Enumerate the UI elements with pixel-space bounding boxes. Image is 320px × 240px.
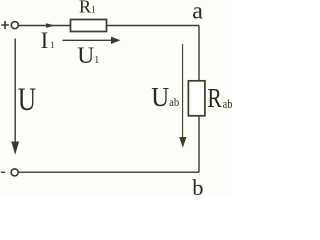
wire bbox=[198, 26, 200, 81]
plus terminal sign bbox=[1, 21, 9, 29]
current arrowhead I1 bbox=[46, 23, 55, 28]
resistor R1 bbox=[71, 20, 107, 32]
svg-text:b: b bbox=[192, 175, 203, 195]
svg-text:U: U bbox=[18, 82, 36, 118]
wire bbox=[19, 171, 199, 173]
resistor Rab bbox=[188, 81, 205, 116]
wire bbox=[198, 117, 200, 173]
arrowhead U bbox=[11, 142, 19, 155]
wire bbox=[19, 25, 70, 27]
positive terminal bbox=[11, 22, 18, 29]
wire bbox=[107, 25, 199, 27]
arrowhead U1 bbox=[111, 37, 121, 44]
arrow U1 bbox=[63, 39, 113, 41]
arrow U bbox=[14, 39, 16, 145]
svg-text:a: a bbox=[192, 0, 203, 25]
negative terminal bbox=[11, 169, 18, 176]
arrowhead Uab bbox=[179, 137, 186, 148]
arrow Uab bbox=[182, 44, 184, 139]
minus terminal sign bbox=[1, 171, 5, 173]
